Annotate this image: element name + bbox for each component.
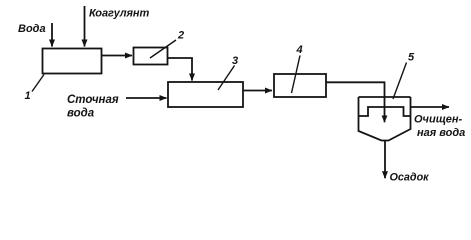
svg-text:Коагулянт: Коагулянт — [89, 8, 149, 20]
svg-text:Осадок: Осадок — [390, 172, 430, 184]
svg-text:вода: вода — [67, 108, 95, 120]
svg-text:1: 1 — [25, 90, 31, 102]
svg-text:2: 2 — [177, 30, 184, 42]
svg-text:4: 4 — [296, 44, 303, 56]
svg-text:5: 5 — [408, 52, 415, 64]
svg-text:Вода: Вода — [18, 23, 46, 35]
svg-text:3: 3 — [232, 55, 238, 67]
svg-text:Сточная: Сточная — [67, 94, 119, 106]
svg-text:Очищен-: Очищен- — [414, 114, 462, 126]
svg-text:ная вода: ная вода — [417, 127, 465, 139]
